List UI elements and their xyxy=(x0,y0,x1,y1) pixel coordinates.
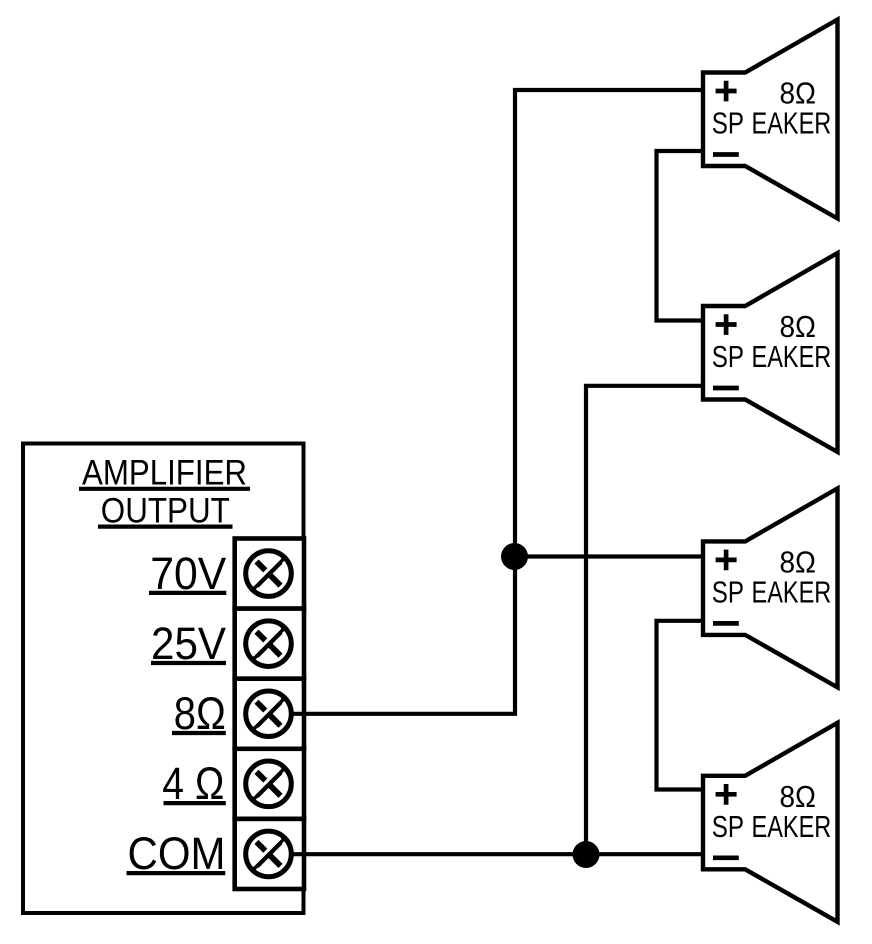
svg-text:EAKER: EAKER xyxy=(752,107,832,141)
label AMPLIFIER xyxy=(79,454,250,493)
svg-text:SP: SP xyxy=(712,107,744,141)
wire 8-ohm terminal to node A and up to LS1 + xyxy=(290,90,703,714)
svg-text:EAKER: EAKER xyxy=(752,340,832,374)
screw terminal 8OHM xyxy=(246,691,292,737)
label LS1 SPEAKER xyxy=(712,107,832,141)
label LS4 minus terminal xyxy=(713,855,739,860)
screw terminal 70V xyxy=(246,551,292,597)
screw terminal COM xyxy=(246,831,292,877)
amplifier output box xyxy=(23,444,304,914)
terminal block cell 25V xyxy=(235,609,304,679)
speaker LS3 (8 ohm) xyxy=(703,488,838,687)
speaker LS4 (8 ohm) xyxy=(703,723,838,922)
label LS4 plus terminal xyxy=(716,784,737,805)
screw terminal 4OHM xyxy=(246,761,292,807)
label LS1 value 8 ohm xyxy=(779,77,816,111)
label LS2 minus terminal xyxy=(713,386,739,391)
label LS3 plus terminal xyxy=(716,550,737,571)
label LS4 value 8 ohm xyxy=(779,780,816,814)
svg-text:EAKER: EAKER xyxy=(752,810,832,844)
label terminal 70V xyxy=(149,548,226,599)
wire COM terminal through node B to LS4 - xyxy=(290,852,703,856)
terminal block cell 8OHM xyxy=(235,679,304,749)
label LS3 value 8 ohm xyxy=(779,546,816,580)
label LS1 plus terminal xyxy=(716,81,737,102)
label LS4 SPEAKER xyxy=(712,810,832,844)
svg-text:SP: SP xyxy=(712,575,744,609)
wire LS2 - down to node B xyxy=(586,386,703,854)
label LS3 SPEAKER xyxy=(712,575,832,609)
wire node A branch to LS3 + xyxy=(515,554,704,558)
label LS2 SPEAKER xyxy=(712,340,832,374)
label LS2 value 8 ohm xyxy=(779,310,816,344)
label terminal 25V xyxy=(151,618,226,669)
node B junction dot xyxy=(573,841,600,868)
label OUTPUT xyxy=(98,492,233,531)
terminal block cell COM xyxy=(235,819,304,889)
wire LS3 - to LS4 + xyxy=(657,621,704,790)
label terminal COM xyxy=(127,828,226,879)
screw terminal 25V xyxy=(246,621,292,667)
speaker LS1 (8 ohm) xyxy=(703,20,838,219)
svg-text:SP: SP xyxy=(712,340,744,374)
terminal block cell 70V xyxy=(235,539,304,609)
speaker LS2 (8 ohm) xyxy=(703,253,838,452)
svg-text:SP: SP xyxy=(712,810,744,844)
label LS2 plus terminal xyxy=(716,314,737,335)
node A junction dot xyxy=(501,543,528,570)
terminal block cell 4OHM xyxy=(235,749,304,819)
svg-text:EAKER: EAKER xyxy=(752,575,832,609)
label LS3 minus terminal xyxy=(713,621,739,626)
label LS1 minus terminal xyxy=(713,152,739,157)
wire LS1 - to LS2 + xyxy=(657,151,704,321)
label terminal 8Ω xyxy=(172,688,226,739)
label terminal 4 Ω xyxy=(162,758,225,809)
